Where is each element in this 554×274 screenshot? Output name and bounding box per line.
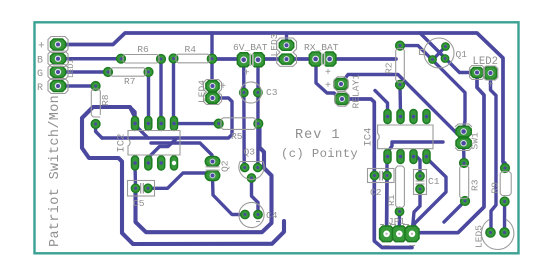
R2 pads: [396, 41, 405, 50]
R9 pads: [501, 164, 510, 173]
svg-text:C5: C5: [133, 198, 145, 209]
svg-text:LED1: LED1: [67, 59, 76, 78]
wire: R1 bottom pad to JP1 pad2: [398, 212, 402, 234]
transistor Q3 pads: [241, 163, 249, 171]
svg-text:LED3: LED3: [269, 33, 280, 56]
R3 pads: [460, 159, 469, 168]
resistor R4 pads: [169, 54, 178, 63]
RX BAT polarity bars: [322, 53, 325, 65]
wire: inner bottom loop C5 left pad down around to x276 up: [136, 124, 272, 233]
wire: R6 right pad down to IC2 pin top row 3: [159, 59, 162, 120]
wire: R9 top pad up join: [503, 163, 506, 168]
JP1 pads: [380, 226, 394, 242]
R2 body (vertical): [396, 49, 405, 83]
svg-text:R1: R1: [386, 194, 397, 206]
svg-text:+: +: [325, 81, 331, 92]
small joint of loop into IC2 pin1: [130, 107, 135, 118]
LED2 pads: [471, 68, 483, 78]
R5 body: [221, 118, 256, 130]
wire: R2 top pad over and diagonal into Q1: [400, 46, 465, 128]
wire: R4 right pad junction down to LED4 top pad: [210, 33, 213, 86]
svg-text:C3: C3: [266, 87, 278, 98]
wire: RX_BAT left pad down and over to RELAY1 bottom pad: [316, 59, 342, 99]
C3 pads: [240, 88, 248, 96]
wire: big left loop from IC2 pin1 area around bottom left to stub right: [82, 107, 284, 244]
wire: C2 right pad up to IC4 pin1 bottom and down to JP1 pad1: [385, 156, 388, 176]
wire: C1 top pad up to IC4 pin3 bottom: [414, 154, 420, 176]
C4 pads: [241, 210, 249, 218]
wire: IC2 inner horizontal to Q2 top pad: [151, 143, 212, 162]
Q2 pads: [205, 157, 219, 167]
wire: IC4 inner horizontal: [388, 142, 444, 152]
svg-text:C4: C4: [266, 210, 278, 221]
LED2 octagon outlines: [470, 66, 485, 80]
svg-text:R9: R9: [490, 182, 501, 194]
wire: power row 6V/RX bus: [212, 57, 396, 61]
SW1 outline: [455, 124, 472, 151]
wire: IC4 pin1 top up diagonal stub: [375, 91, 388, 114]
LED4 octagon outline: [204, 80, 222, 105]
header SV1 octagons: [48, 37, 68, 53]
svg-text:G: G: [37, 69, 43, 80]
header SV1 pad +: [51, 39, 66, 50]
wire: 6V BAT left pad down to C3 left pad and stub: [242, 62, 246, 168]
C5 polarity bars: [141, 183, 144, 194]
wire: LED2 right pad down to LED5 left pad: [491, 77, 497, 233]
svg-text:(c) Pointy: (c) Pointy: [281, 147, 358, 161]
svg-text:JP1: JP1: [388, 216, 405, 227]
IC2 box: [128, 131, 180, 156]
svg-text:+: +: [220, 82, 226, 93]
IC4 box with notch: [378, 125, 433, 149]
svg-text:R: R: [37, 83, 43, 94]
transistor Q3 circle outline: [239, 162, 264, 180]
wire: R7 right pad down to IC2 pin top row 2: [147, 72, 150, 120]
LED5 circle with gap: [481, 219, 513, 249]
R9 body (vertical): [500, 172, 511, 196]
wire: IC2 pin4 top to R5 left pad: [174, 122, 219, 125]
svg-text:R2: R2: [384, 62, 395, 74]
wire: R2 bottom pad down to IC4 pin2 top: [398, 85, 402, 113]
wire: R4 left pad down to IC2 pin top row 4: [172, 59, 175, 121]
resistor R7 body: [110, 68, 146, 76]
wire: header R pad to R8 top pad: [58, 84, 96, 87]
svg-text:+: +: [325, 68, 331, 79]
header SV1 pad G: [51, 67, 66, 78]
wire: R9 pads vertical chain to LED5 right pad: [503, 202, 507, 233]
IC4 pads bottom row: [384, 150, 430, 164]
svg-text:R5: R5: [231, 131, 243, 142]
LED3 pads: [279, 40, 293, 50]
wire: top bus from header + pad to top-right corner: [58, 33, 505, 167]
svg-text:+: +: [38, 41, 45, 53]
C1 box (vertical): [414, 170, 427, 195]
svg-text:LED4: LED4: [197, 80, 208, 103]
R1 bottom pad: [395, 207, 403, 215]
wire: IC2 bottom pin diagonal joints: [148, 138, 177, 158]
svg-text:LED5: LED5: [474, 225, 485, 248]
svg-text:R6: R6: [137, 44, 149, 55]
wire: 6V BAT right pad down through C3 right, R5 right to C4 right pad: [256, 62, 260, 168]
svg-text:R4: R4: [185, 44, 197, 55]
LED3 octagon outline: [277, 38, 297, 66]
svg-text:Q3: Q3: [244, 147, 256, 158]
resistor R6 body: [123, 55, 159, 64]
resistor R8 pads: [91, 82, 100, 91]
svg-text:R8: R8: [100, 94, 111, 106]
R1 body (vertical): [396, 166, 405, 208]
IC4 pads top row: [384, 110, 430, 124]
LED5 pads: [486, 228, 495, 237]
wire: C5 right pad to Q2 bottom pad: [148, 173, 212, 188]
wire: R8 bottom pad down to y138 horizontal: [96, 124, 102, 138]
JP1 brackets: [380, 224, 409, 226]
svg-text:C1: C1: [428, 176, 440, 187]
IC2 pads bottom row: [132, 156, 178, 170]
6V BAT pads: [237, 53, 250, 67]
svg-text:C2: C2: [370, 187, 382, 198]
svg-text:Patriot Switch/Mon: Patriot Switch/Mon: [48, 95, 63, 247]
svg-text:RELAY1: RELAY1: [351, 74, 362, 109]
RX_BAT pads: [309, 52, 322, 66]
svg-text:SW1: SW1: [470, 132, 481, 150]
resistor R4 body: [176, 54, 210, 63]
wire: LED3 top pad up to top bus: [285, 34, 288, 45]
wire: R3 bottom pad diagonal joining JP1 bus: [444, 201, 465, 222]
svg-text:LED2: LED2: [473, 56, 498, 68]
svg-text:Rev 1: Rev 1: [295, 128, 341, 143]
svg-text:Q2: Q2: [220, 160, 231, 172]
C4 circle: [239, 202, 264, 227]
C1 pads: [416, 172, 424, 180]
wire: RELAY1 top pad up-right to horizontal y74 towards R2 and diagonal to SW1: [341, 75, 464, 142]
wire: SW1 bottom pad down to R3 top pad: [462, 145, 466, 163]
board outline: [35, 22, 519, 253]
svg-text:RX_BAT: RX_BAT: [304, 42, 339, 53]
SW1 pads: [456, 126, 471, 136]
header SV1 pad B: [51, 53, 66, 64]
wire: IC2 pin5 bottom down to C5 left pad: [133, 163, 137, 188]
C1 polarity bars: [416, 181, 425, 184]
resistor R7 pads: [104, 68, 113, 77]
wire: Q1 internal diagonals: [433, 47, 446, 60]
wire: header B pad to R6 left pad: [58, 57, 121, 61]
svg-text:Q1: Q1: [456, 49, 468, 60]
wire: Q2 bottom pad down to C4 left pad: [213, 178, 246, 215]
Q1 circle: [424, 38, 454, 68]
svg-text:+: +: [244, 69, 250, 80]
Q2 silkscreen bars: [206, 167, 220, 170]
wire: LED4 bottom pad right, down x232, left y138 into IC2 pin1: [102, 98, 232, 138]
svg-text:IC2: IC2: [116, 134, 128, 153]
C5 box: [128, 181, 155, 197]
resistor R6 pads: [117, 54, 126, 63]
RELAY1 pads: [334, 79, 348, 90]
Q1 pin1 square: [420, 50, 425, 55]
resistor R8 body (vertical): [91, 89, 100, 117]
Q1 pads: [442, 43, 450, 51]
LED4 pads: [206, 81, 219, 91]
svg-text:B: B: [37, 56, 43, 67]
C2 polarity bars: [380, 171, 383, 181]
R3 body (vertical): [460, 166, 469, 199]
header SV1 pad R: [51, 81, 66, 92]
wire: header G pad to R7 left pad: [58, 70, 108, 73]
wire: Q3 bottom pad down to C4 right pad: [252, 178, 259, 215]
svg-text:R7: R7: [124, 76, 136, 87]
R5 pads: [214, 119, 223, 128]
C3 circle: [240, 82, 261, 103]
C5 pads: [131, 184, 139, 192]
6V BAT polarity bars: [250, 54, 253, 67]
wire: C1 bottom pad down to JP1 pad3: [412, 189, 420, 234]
svg-text:+: +: [488, 81, 494, 92]
svg-text:R3: R3: [470, 179, 481, 191]
wire: IC4 pin4 bottom diagonal to R3 bottom region then JP1: [412, 158, 446, 229]
wire: IC2 pin1 top diagonal to y138: [135, 125, 148, 138]
svg-text:IC4: IC4: [363, 128, 375, 147]
C2 box: [368, 169, 395, 183]
wire: Q1 bottom-right pad to LED2 left pad: [420, 33, 477, 73]
C4 minus mark: [256, 221, 260, 223]
wire: RELAY1 bottom pad to x374 vertical down to bottom right: [342, 99, 412, 248]
C2 pads: [370, 171, 378, 179]
RELAY1 hexagon outlines: [334, 77, 348, 91]
IC2 pads top row: [132, 117, 178, 131]
svg-text:6V_BAT: 6V_BAT: [233, 42, 268, 53]
wire: JP1 pad3 right to diagonal up to x484 vertical: [414, 77, 484, 233]
